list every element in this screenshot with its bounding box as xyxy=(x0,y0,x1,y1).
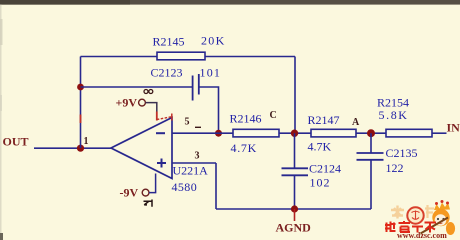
svg-text:C2135: C2135 xyxy=(386,146,418,160)
capacitor C2123 xyxy=(193,74,199,101)
wire: feedback drop to node C xyxy=(294,57,296,134)
svg-text:5: 5 xyxy=(185,117,190,128)
wire: R2147 to R2154 xyxy=(356,132,386,134)
resistor R2154 xyxy=(386,129,432,137)
wire: ground rail xyxy=(216,208,371,210)
svg-text:4580: 4580 xyxy=(172,180,198,194)
node: junction dot to C2123 branch xyxy=(77,84,84,91)
wire: C2135 to ground rail xyxy=(370,160,372,209)
wire: noninverting drop to rail xyxy=(215,163,217,209)
svg-text:U221A: U221A xyxy=(173,164,209,178)
bottom-left corner blob xyxy=(0,233,3,240)
wire: top feedback left segment xyxy=(81,56,158,58)
power -9V xyxy=(120,174,156,200)
svg-text:-9V: -9V xyxy=(120,186,139,200)
wire: OUT to op-amp apex xyxy=(34,147,111,149)
left edge shading xyxy=(0,5,2,240)
minus input marker xyxy=(156,132,165,134)
wire: node C down to C2124 xyxy=(294,133,296,168)
pin dash glyph xyxy=(195,126,201,128)
pin 8 rotated xyxy=(144,90,153,94)
node: junction dot on inverting line xyxy=(215,130,222,137)
svg-text:R2146: R2146 xyxy=(230,112,262,126)
resistor R2146 xyxy=(233,129,279,137)
svg-text:5.8K: 5.8K xyxy=(379,108,409,122)
resistor R2145 xyxy=(157,52,205,60)
svg-text:102: 102 xyxy=(310,176,331,190)
watermark faded text xyxy=(391,205,434,219)
svg-text:A: A xyxy=(352,117,360,128)
op-amp U221A xyxy=(111,118,172,179)
wire: inverting input line xyxy=(172,132,233,134)
top grey band xyxy=(0,0,460,5)
wire: noninverting input line xyxy=(172,162,216,164)
watermark red CJK text xyxy=(385,221,436,233)
node: AGND junction dot xyxy=(291,205,298,212)
wire: C2124 to ground rail xyxy=(294,175,296,209)
svg-text:R2147: R2147 xyxy=(308,113,340,127)
svg-text:+9V: +9V xyxy=(116,96,138,110)
capacitor C2124 xyxy=(282,168,309,175)
wire: R2146 to R2147 xyxy=(279,132,311,134)
wire: C2123 branch right + drop to inverting line xyxy=(199,87,219,133)
wire: C2123 branch left xyxy=(81,86,193,88)
resistor R2147 xyxy=(311,129,356,137)
svg-text:R2145: R2145 xyxy=(153,35,185,49)
wire: top feedback right segment xyxy=(205,56,295,58)
svg-text:20K: 20K xyxy=(201,34,226,48)
svg-text:4.7K: 4.7K xyxy=(231,141,257,155)
svg-text:122: 122 xyxy=(386,161,404,175)
capacitor C2135 xyxy=(357,153,384,160)
svg-text:3: 3 xyxy=(195,151,200,162)
svg-text:OUT: OUT xyxy=(3,135,29,149)
node C dot xyxy=(291,130,298,137)
pin 4 rotated xyxy=(144,200,153,207)
svg-text:1: 1 xyxy=(84,136,89,147)
svg-text:AGND: AGND xyxy=(276,221,312,235)
wire: AGND stub xyxy=(294,209,296,221)
svg-text:C: C xyxy=(270,110,277,121)
svg-text:C2123: C2123 xyxy=(151,66,183,80)
plus input marker xyxy=(157,159,166,168)
svg-text:4.7K: 4.7K xyxy=(308,140,332,154)
node: output junction dot xyxy=(77,145,84,152)
svg-text:IN: IN xyxy=(447,121,460,135)
wire: R2154 to IN xyxy=(432,132,447,134)
svg-text:www.dzsc.com: www.dzsc.com xyxy=(397,231,447,240)
wire: node A down to C2135 xyxy=(370,133,372,153)
node A dot xyxy=(367,129,375,137)
watermark mascot xyxy=(421,200,456,235)
watermark emblem xyxy=(407,207,423,223)
wire: feedback vertical (output to top rail) xyxy=(80,57,82,149)
power +9V xyxy=(116,96,172,121)
svg-text:C2124: C2124 xyxy=(309,162,341,176)
wire: red segment on feedback vertical xyxy=(80,115,82,124)
svg-text:101: 101 xyxy=(200,66,222,80)
